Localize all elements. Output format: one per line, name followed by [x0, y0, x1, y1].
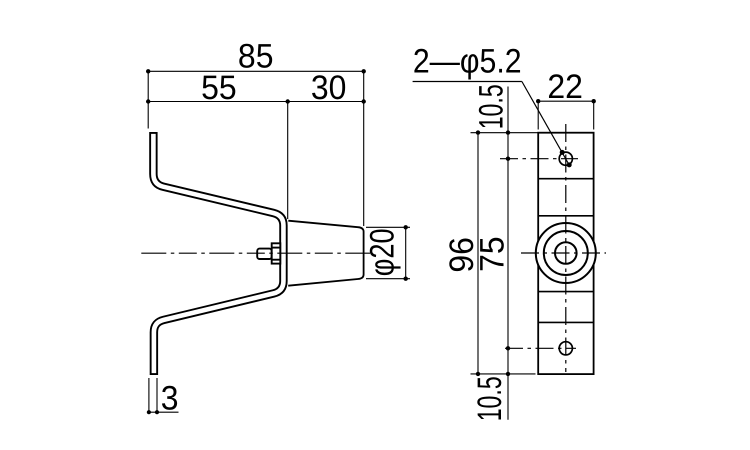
dimension phi20: [366, 225, 410, 281]
svg-text:φ20: φ20: [364, 228, 402, 276]
boss hole: [555, 242, 577, 264]
dimension line 75 and 10.5 top/bottom: [506, 87, 510, 420]
svg-text:85: 85: [238, 37, 274, 75]
dimension 3 (thickness): [147, 378, 179, 414]
svg-text:10.5: 10.5: [473, 84, 511, 129]
boss ring: [544, 231, 588, 275]
svg-text:22: 22: [547, 68, 583, 106]
svg-text:30: 30: [311, 69, 347, 107]
svg-text:75: 75: [474, 236, 512, 272]
cone / horn: [288, 221, 363, 286]
centerline left view: [141, 252, 370, 254]
svg-text:2—φ5.2: 2—φ5.2: [413, 43, 522, 81]
svg-text:3: 3: [161, 379, 179, 417]
bottom hole: [559, 342, 572, 355]
plate bend line 2: [538, 215, 593, 217]
extension line top (96 / 10.5): [471, 132, 539, 134]
leader 2-phi5.2: [413, 82, 572, 168]
plate bend line 3: [538, 291, 593, 293]
centerline bottom hole: [505, 347, 576, 349]
svg-text:10.5: 10.5: [471, 376, 509, 421]
vertical centerline right view: [565, 124, 567, 372]
plate outline: [538, 133, 593, 374]
extension line left (85/55 left end): [147, 71, 149, 128]
extension line right (85/30 right end): [363, 71, 365, 226]
nut: [272, 243, 281, 263]
plate bend line 1: [538, 178, 593, 180]
dimension line 96: [476, 130, 480, 376]
dimension line 85: [146, 69, 366, 73]
boss outer circle: [536, 223, 596, 283]
top hole: [559, 152, 572, 165]
dimension line 22: [536, 99, 596, 130]
extension line middle (55/30 boundary): [287, 102, 289, 220]
bolt shaft: [257, 249, 272, 259]
extension line bottom (96 / 10.5): [471, 373, 536, 375]
bracket strip (side view sheet metal): [153, 132, 283, 375]
horizontal centerline boss: [521, 252, 606, 254]
dimension line 55/30: [146, 99, 366, 103]
svg-text:55: 55: [201, 69, 237, 107]
plate bend line 4: [538, 321, 593, 323]
centerline top hole: [500, 158, 578, 160]
